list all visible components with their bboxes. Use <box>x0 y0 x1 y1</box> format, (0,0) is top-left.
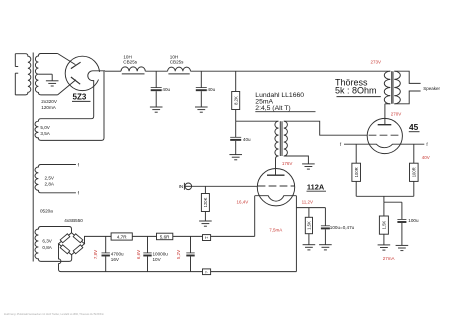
svg-text:120K: 120K <box>203 197 208 207</box>
svg-text:11,2V: 11,2V <box>302 199 313 204</box>
svg-text:176V: 176V <box>282 161 293 166</box>
svg-text:6,6V: 6,6V <box>136 250 141 259</box>
svg-text:0520a: 0520a <box>40 208 53 213</box>
svg-text:3,5A: 3,5A <box>40 131 50 136</box>
svg-text:2,5V: 2,5V <box>45 175 55 180</box>
svg-text:10V: 10V <box>153 257 162 262</box>
svg-text:2:4,5 (Alt T): 2:4,5 (Alt T) <box>255 105 290 112</box>
svg-text:Zeichnung: 45-Eintakt-Verstaer: Zeichnung: 45-Eintakt-Verstaerker mit 11… <box>4 313 104 316</box>
svg-text:40u: 40u <box>243 137 251 142</box>
svg-text:40u: 40u <box>208 87 216 92</box>
svg-text:120mA: 120mA <box>41 105 56 110</box>
svg-text:f: f <box>426 142 428 147</box>
svg-text:CB25s: CB25s <box>170 59 184 64</box>
svg-text:f: f <box>78 162 80 167</box>
svg-text:100u=0,47u: 100u=0,47u <box>330 225 355 230</box>
svg-text:112A: 112A <box>307 182 325 191</box>
svg-text:10000u: 10000u <box>153 252 169 257</box>
svg-text:8,2K: 8,2K <box>233 96 238 105</box>
svg-text:100u: 100u <box>408 218 419 223</box>
svg-text:2,8A: 2,8A <box>45 182 55 187</box>
svg-text:45: 45 <box>409 122 419 132</box>
svg-text:CB25s: CB25s <box>123 59 137 64</box>
svg-text:5k : 8Ohm: 5k : 8Ohm <box>335 85 377 95</box>
svg-text:6,3V: 6,3V <box>42 239 52 244</box>
svg-text:40V: 40V <box>422 155 430 160</box>
svg-text:f: f <box>340 142 342 147</box>
svg-text:7,8V: 7,8V <box>93 250 98 259</box>
svg-text:16,4V: 16,4V <box>237 199 249 204</box>
svg-text:f: f <box>78 190 80 195</box>
svg-text:Speaker: Speaker <box>423 86 440 91</box>
svg-text:1,5K: 1,5K <box>382 221 387 230</box>
svg-text:IN: IN <box>179 184 184 189</box>
svg-text:16V: 16V <box>111 257 120 262</box>
svg-text:27mA: 27mA <box>383 256 395 261</box>
svg-text:273V: 273V <box>371 60 382 65</box>
svg-text:5Z3: 5Z3 <box>73 93 87 102</box>
svg-text:100R: 100R <box>354 167 359 177</box>
svg-text:2x320V: 2x320V <box>41 99 58 104</box>
svg-text:40u: 40u <box>162 87 170 92</box>
svg-text:4xSB550: 4xSB550 <box>64 218 83 223</box>
svg-text:100R: 100R <box>411 167 416 177</box>
svg-text:7,5mA: 7,5mA <box>269 227 282 232</box>
svg-text:5,0V: 5,0V <box>40 125 50 130</box>
svg-text:5,2V: 5,2V <box>176 250 181 259</box>
svg-text:1,5K: 1,5K <box>307 221 312 230</box>
svg-text:0,8A: 0,8A <box>42 245 52 250</box>
svg-text:5,6R: 5,6R <box>160 234 170 239</box>
svg-text:4,7R: 4,7R <box>117 234 127 239</box>
svg-text:270V: 270V <box>391 111 402 116</box>
svg-text:4700u: 4700u <box>111 252 124 257</box>
